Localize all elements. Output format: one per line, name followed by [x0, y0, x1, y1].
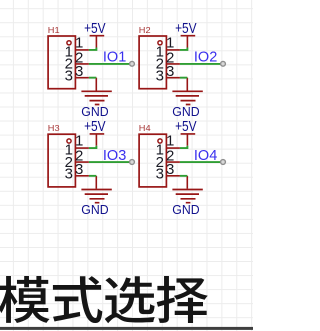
svg-text:GND: GND — [81, 104, 108, 119]
svg-text:IO2: IO2 — [194, 50, 217, 66]
svg-text:IO4: IO4 — [194, 148, 217, 164]
svg-text:3: 3 — [65, 166, 73, 183]
svg-text:+5V: +5V — [84, 20, 106, 37]
svg-text:GND: GND — [81, 202, 108, 217]
svg-text:H3: H3 — [48, 123, 60, 133]
svg-text:3: 3 — [156, 68, 164, 85]
svg-text:+5V: +5V — [84, 118, 106, 135]
svg-text:+5V: +5V — [175, 118, 197, 135]
svg-text:H1: H1 — [48, 25, 60, 35]
svg-text:H2: H2 — [139, 25, 151, 35]
svg-text:3: 3 — [65, 68, 73, 85]
svg-text:GND: GND — [172, 202, 199, 217]
svg-text:IO1: IO1 — [103, 50, 126, 66]
svg-text:GND: GND — [172, 104, 199, 119]
svg-text:H4: H4 — [139, 123, 151, 133]
svg-text:3: 3 — [156, 166, 164, 183]
svg-text:+5V: +5V — [175, 20, 197, 37]
svg-text:IO3: IO3 — [103, 148, 126, 164]
